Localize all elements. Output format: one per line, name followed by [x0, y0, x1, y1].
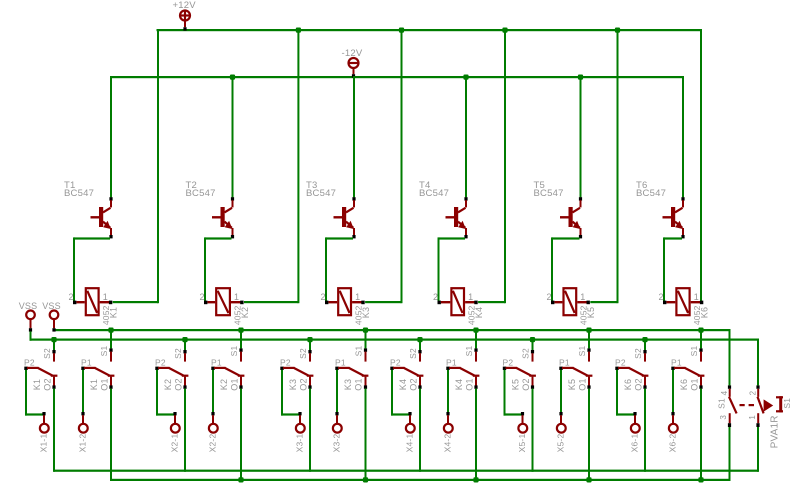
svg-text:O2: O2 [521, 378, 531, 390]
relay contact K1 O1 [81, 358, 114, 391]
svg-text:K6: K6 [700, 307, 710, 318]
svg-text:K4: K4 [474, 307, 484, 318]
svg-text:S1: S1 [229, 346, 239, 357]
svg-text:X3-2: X3-2 [332, 434, 342, 453]
svg-text:O1: O1 [690, 378, 700, 390]
relay contact K4 O2 [390, 358, 423, 391]
connector X1-2 [78, 412, 88, 452]
svg-text:2: 2 [748, 390, 757, 395]
svg-text:X5-2: X5-2 [556, 434, 566, 453]
wire -12V bus to T3 collector [353, 76, 355, 197]
wire bus O1 bottom [110, 479, 731, 481]
relay coil K4 4052 [433, 288, 484, 325]
svg-text:P2: P2 [615, 358, 626, 368]
wire contact K2 P to connector X2-2 [212, 370, 214, 412]
svg-text:2: 2 [547, 292, 552, 302]
svg-text:X6-1: X6-1 [630, 434, 640, 453]
wire contact K2 O2 down [184, 389, 186, 472]
relay contact K3 O2 [280, 358, 313, 391]
wire bus S1 to contact K2 S1 [238, 328, 243, 349]
svg-text:K4: K4 [454, 379, 464, 390]
junction bus O1 at K2 [238, 477, 243, 482]
svg-text:2: 2 [69, 292, 74, 302]
svg-text:2: 2 [321, 292, 326, 302]
svg-text:O2: O2 [409, 378, 419, 390]
wire contact K5 P to connector X5-1 [504, 370, 524, 416]
svg-text:X2-1: X2-1 [170, 434, 180, 453]
pin mark +12V [183, 27, 186, 30]
svg-text:2: 2 [433, 292, 438, 302]
wire +12V feed to K4 pin1 [478, 29, 506, 303]
wire contact K5 O1 down [588, 389, 590, 481]
junction bus O1 at K4 [473, 477, 478, 482]
wire -12V bus to T2 collector [232, 76, 234, 197]
pin K4 S2 [408, 348, 421, 362]
wire contact K3 O1 down [365, 389, 367, 481]
junction -12V T2 [230, 75, 235, 80]
wire bus S2 to contact K2 S2 [182, 337, 187, 350]
pin K6 S2 [633, 348, 646, 362]
relay coil K6 4052 [659, 288, 710, 325]
svg-text:1: 1 [748, 415, 757, 420]
svg-text:K2: K2 [219, 379, 229, 390]
junction -12V T5 [578, 75, 583, 80]
svg-text:O2: O2 [634, 378, 644, 390]
svg-text:1: 1 [580, 292, 585, 302]
relay contact K2 O1 [211, 358, 244, 391]
svg-text:1: 1 [234, 292, 239, 302]
svg-text:2: 2 [200, 292, 205, 302]
wire contact K6 O2 down [644, 389, 646, 472]
junction +12V feed K2 [296, 28, 301, 33]
switch S1 PVA1R actuator link [740, 404, 755, 406]
pin K5 S2 [521, 348, 534, 362]
wire bus O2 bottom [54, 470, 759, 472]
svg-text:O2: O2 [174, 378, 184, 390]
svg-text:P1: P1 [671, 358, 682, 368]
wire bus S2 to contact K1 S2 [51, 337, 56, 350]
svg-text:1: 1 [103, 292, 108, 302]
svg-text:K2: K2 [163, 379, 173, 390]
wire contact K6 P to connector X6-2 [672, 370, 674, 412]
transistor T5 BC547 [534, 180, 583, 238]
wire -12V bus to T6 collector [682, 76, 684, 197]
svg-text:X1-1: X1-1 [39, 434, 49, 453]
supply +12V P1 [173, 0, 197, 27]
wire bus S2/VSS [30, 339, 760, 341]
relay coil K2 4052 [200, 288, 250, 325]
svg-text:S2: S2 [521, 348, 531, 359]
wire bus S2 to contact K3 S2 [307, 337, 312, 350]
wire +12V feed to K5 pin1 [590, 29, 618, 303]
svg-text:K5: K5 [586, 307, 596, 318]
pin K2 S1 [229, 346, 242, 362]
pin K1 S2 [42, 348, 55, 362]
wire bus S2 to contact K4 S2 [417, 337, 422, 350]
wire bus S1/VSS [54, 329, 731, 331]
junction +12V feed K3 [399, 28, 404, 33]
wire bus S1 to contact K6 S1 [698, 328, 703, 349]
relay coil K1 4052 [69, 288, 119, 325]
svg-text:X4-2: X4-2 [443, 434, 453, 453]
wire bus S2 to contact K6 S2 [642, 337, 647, 350]
wire +12V feed to K6 pin1 [700, 29, 702, 303]
svg-text:X1-2: X1-2 [78, 434, 88, 453]
wire contact K4 P to connector X4-2 [447, 370, 449, 412]
wire -12V bus to T1 collector [110, 76, 112, 197]
junction bus O1 at K3 [363, 477, 368, 482]
wire contact K4 O1 down [475, 389, 477, 481]
wire contact K1 O2 down [53, 389, 55, 472]
svg-text:P1: P1 [335, 358, 346, 368]
connector X5-2 [556, 412, 566, 452]
svg-text:P1: P1 [81, 358, 92, 368]
wire +12V bus [157, 29, 702, 31]
connector X6-2 [668, 412, 678, 452]
wire T5 emitter to K5 pin2 [551, 237, 580, 303]
relay contact K5 O1 [559, 358, 592, 391]
wire bus S1 to switch S1 pin4 [729, 329, 731, 385]
wire contact K4 O2 down [419, 389, 421, 472]
relay contact K3 O1 [335, 358, 368, 391]
svg-text:O1: O1 [230, 378, 240, 390]
switch S1 PVA1R plunger [764, 396, 792, 448]
svg-text:-12V: -12V [342, 48, 363, 59]
wire contact K3 P to connector X3-2 [336, 370, 338, 412]
svg-text:BC547: BC547 [636, 188, 666, 199]
svg-text:2: 2 [659, 292, 664, 302]
svg-text:S1: S1 [689, 346, 699, 357]
svg-text:O2: O2 [43, 378, 53, 390]
wire -12V bus [110, 76, 684, 78]
svg-text:S1: S1 [782, 398, 792, 409]
supply -12V P2 [342, 48, 363, 74]
wire contact K2 P to connector X2-1 [156, 370, 176, 416]
svg-text:P2: P2 [503, 358, 514, 368]
wire +12V feed to K2 pin1 [244, 29, 299, 303]
transistor T2 BC547 [186, 180, 235, 238]
wire contact K1 P to connector X1-2 [82, 370, 84, 412]
pin K4 S1 [464, 346, 477, 362]
pin K2 S2 [173, 348, 186, 362]
junction bus O1 at K6 [698, 477, 703, 482]
pin mark VSS U$1 [29, 328, 32, 331]
svg-text:S2: S2 [42, 348, 52, 359]
wire contact K4 P to connector X4-1 [391, 370, 411, 416]
svg-text:BC547: BC547 [306, 188, 336, 199]
svg-text:O1: O1 [465, 378, 475, 390]
transistor T3 BC547 [306, 180, 356, 238]
relay contact K6 O1 [671, 358, 704, 391]
svg-text:K3: K3 [361, 307, 371, 318]
svg-text:X5-1: X5-1 [517, 434, 527, 453]
wire T3 emitter to K3 pin2 [325, 237, 353, 303]
transistor T6 BC547 [636, 180, 685, 238]
svg-text:O1: O1 [100, 378, 110, 390]
connector X4-2 [443, 412, 453, 452]
wire bus S2 to switch S1 pin2 [757, 339, 759, 386]
svg-text:P2: P2 [155, 358, 166, 368]
svg-text:BC547: BC547 [186, 188, 216, 199]
svg-text:K3: K3 [288, 379, 298, 390]
wire contact K5 P to connector X5-2 [560, 370, 562, 412]
connector X3-2 [332, 412, 342, 452]
svg-text:VSS: VSS [42, 301, 61, 311]
svg-text:BC547: BC547 [419, 188, 449, 199]
junction bus O1 at K5 [586, 477, 591, 482]
svg-text:S2: S2 [298, 348, 308, 359]
svg-text:O1: O1 [578, 378, 588, 390]
relay coil K5 4052 [547, 288, 597, 325]
wire bus S1 to contact K3 S1 [363, 328, 368, 349]
svg-text:K5: K5 [511, 379, 521, 390]
junction -12V T4 [463, 75, 468, 80]
svg-text:P2: P2 [24, 358, 35, 368]
svg-text:S2: S2 [633, 348, 643, 359]
svg-text:K6: K6 [679, 379, 689, 390]
svg-text:P1: P1 [211, 358, 222, 368]
wire bus S2 to contact K5 S2 [530, 337, 535, 350]
wire contact K1 P to connector X1-1 [25, 370, 45, 416]
wire contact K2 O1 down [240, 389, 242, 481]
wire contact K3 O2 down [309, 389, 311, 472]
pin K6 S1 [689, 346, 702, 362]
svg-text:S1: S1 [464, 346, 474, 357]
svg-text:4: 4 [720, 390, 729, 395]
wire switch S1 pin3 to bus O1 [729, 427, 731, 481]
wire -12V bus to T4 collector [465, 76, 467, 197]
svg-text:P2: P2 [280, 358, 291, 368]
svg-text:K4: K4 [398, 379, 408, 390]
svg-text:BC547: BC547 [534, 188, 564, 199]
svg-text:P1: P1 [559, 358, 570, 368]
svg-text:S1: S1 [99, 346, 109, 357]
svg-text:BC547: BC547 [64, 188, 94, 199]
connector X5-1 [517, 412, 527, 452]
pin K1 S1 [99, 346, 112, 362]
relay contact K6 O2 [615, 358, 648, 391]
wire -12V bus to T5 collector [580, 76, 582, 197]
supply VSS U$2 [42, 301, 61, 328]
connector X2-2 [208, 412, 218, 452]
svg-text:VSS: VSS [19, 301, 38, 311]
connector X1-1 [39, 412, 49, 452]
svg-text:PVA1R: PVA1R [769, 415, 780, 448]
connector X3-1 [295, 412, 305, 452]
svg-text:K1: K1 [109, 307, 119, 318]
switch S1 PVA1R right pole [748, 385, 764, 427]
svg-text:O2: O2 [299, 378, 309, 390]
wire VSS U$1 to bus S2 [30, 331, 32, 340]
junction +12V feed K5 [615, 28, 620, 33]
svg-text:O1: O1 [354, 378, 364, 390]
svg-text:S1: S1 [577, 346, 587, 357]
switch S1 PVA1R left pole [717, 385, 737, 427]
supply VSS U$1 [19, 301, 38, 328]
connector X4-1 [405, 412, 415, 452]
svg-text:K5: K5 [567, 379, 577, 390]
svg-text:X6-2: X6-2 [668, 434, 678, 453]
svg-text:X4-1: X4-1 [405, 434, 415, 453]
svg-text:S2: S2 [173, 348, 183, 359]
wire T2 emitter to K2 pin2 [204, 237, 232, 303]
wire T1 emitter to K1 pin2 [73, 237, 110, 303]
pin K3 S1 [354, 346, 367, 362]
svg-text:P2: P2 [390, 358, 401, 368]
wire bus S1 to contact K1 S1 [108, 328, 113, 349]
svg-text:X3-1: X3-1 [295, 434, 305, 453]
connector X6-1 [630, 412, 640, 452]
wire bus S1 to contact K4 S1 [473, 328, 478, 349]
svg-text:K3: K3 [343, 379, 353, 390]
relay contact K2 O2 [155, 358, 188, 391]
pin mark -12V [352, 74, 355, 77]
svg-text:S2: S2 [408, 348, 418, 359]
pin K5 S1 [577, 346, 590, 362]
svg-text:P1: P1 [446, 358, 457, 368]
svg-text:1: 1 [468, 292, 473, 302]
relay contact K5 O2 [503, 358, 536, 391]
wire contact K6 O1 down [700, 389, 702, 481]
wire bus S1 to contact K5 S1 [586, 328, 591, 349]
pin K3 S2 [298, 348, 311, 362]
svg-text:S1: S1 [354, 346, 364, 357]
wire contact K5 O2 down [532, 389, 534, 472]
wire contact K1 O1 down [110, 389, 112, 481]
transistor T1 BC547 [64, 180, 113, 238]
wire VSS U$2 to bus S1 [0, 0, 1, 1]
svg-text:3: 3 [719, 415, 728, 420]
junction +12V feed K4 [502, 28, 507, 33]
connector X2-1 [170, 412, 180, 452]
svg-text:+12V: +12V [173, 0, 197, 11]
wire contact K3 P to connector X3-1 [281, 370, 301, 416]
svg-text:K1: K1 [32, 379, 42, 390]
svg-text:1: 1 [694, 292, 699, 302]
transistor T4 BC547 [419, 180, 468, 238]
wire T6 emitter to K6 pin2 [663, 237, 682, 303]
wire contact K6 P to connector X6-1 [616, 370, 636, 416]
svg-text:K6: K6 [623, 379, 633, 390]
wire T4 emitter to K4 pin2 [438, 237, 466, 303]
svg-text:1: 1 [355, 292, 360, 302]
svg-text:S1: S1 [717, 398, 727, 409]
wire +12V feed to K1 pin1 [113, 29, 159, 303]
wire +12V feed to K3 pin1 [365, 29, 402, 303]
relay contact K1 O2 [24, 358, 57, 391]
svg-text:K2: K2 [240, 307, 250, 318]
relay contact K4 O1 [446, 358, 479, 391]
svg-text:X2-2: X2-2 [208, 434, 218, 453]
svg-text:K1: K1 [89, 379, 99, 390]
pin mark VSS U$2 [52, 328, 55, 331]
wire switch S1 pin1 to bus O2 [757, 427, 759, 472]
relay coil K3 4052 [321, 288, 371, 325]
